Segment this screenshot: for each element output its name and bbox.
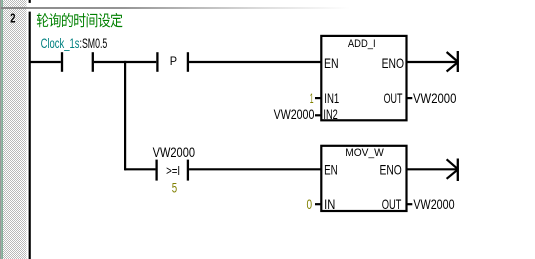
svg-text:ENO: ENO [380, 161, 402, 177]
svg-text:2: 2 [10, 11, 15, 26]
svg-text:EN: EN [324, 55, 339, 71]
svg-text:OUT: OUT [382, 196, 402, 212]
svg-text:>=I: >=I [166, 163, 180, 178]
svg-text:ADD_I: ADD_I [348, 38, 376, 50]
svg-text:VW2000: VW2000 [413, 196, 454, 212]
svg-text:0: 0 [307, 196, 313, 212]
svg-text:VW2000: VW2000 [274, 106, 315, 122]
svg-text:1: 1 [310, 90, 314, 106]
svg-text:EN: EN [324, 161, 338, 177]
svg-text:ENO: ENO [382, 55, 404, 71]
svg-text:5: 5 [172, 179, 178, 195]
svg-text:VW2000: VW2000 [153, 144, 196, 160]
svg-text:Clock_1s: Clock_1s [41, 35, 80, 51]
svg-text:IN1: IN1 [324, 90, 339, 106]
svg-text:P: P [170, 54, 177, 68]
svg-text:OUT: OUT [384, 90, 403, 106]
svg-text:MOV_W: MOV_W [345, 147, 384, 159]
svg-text:IN2: IN2 [323, 106, 338, 122]
svg-text:IN: IN [324, 196, 335, 212]
svg-text::SM0.5: :SM0.5 [80, 35, 108, 51]
svg-text:VW2000: VW2000 [413, 90, 457, 106]
